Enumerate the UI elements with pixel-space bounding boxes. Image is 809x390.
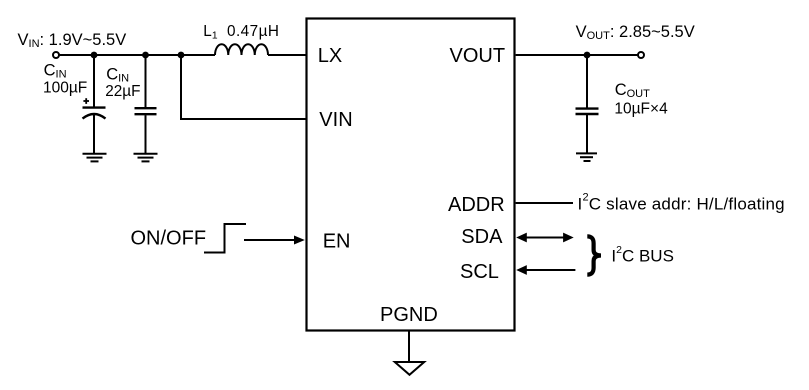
capacitor CIN1 100uF (polarized) (83, 108, 106, 119)
svg-text:ADDR: ADDR (448, 194, 505, 216)
svg-text:0.47µH: 0.47µH (227, 23, 279, 40)
svg-text:ON/OFF: ON/OFF (131, 228, 207, 250)
wire CIN1 bottom lead (93, 114, 95, 153)
brace I2C bus (587, 236, 601, 274)
svg-text:SCL: SCL (460, 261, 499, 283)
ground PGND arrow (395, 362, 424, 375)
wire COUT top lead (586, 55, 588, 108)
svg-text:LX: LX (318, 45, 342, 67)
ground GND1 (83, 154, 107, 162)
inductor L1 (215, 44, 268, 55)
svg-text:SDA: SDA (461, 226, 503, 248)
capacitor C1 plus sign (83, 98, 89, 104)
arrowhead SDA right (563, 233, 574, 243)
svg-text:100µF: 100µF (43, 80, 87, 97)
svg-text:EN: EN (323, 231, 351, 253)
svg-text:VOUT: VOUT (450, 45, 506, 67)
svg-text:I2C slave addr: H/L/floating: I2C slave addr: H/L/floating (578, 191, 785, 213)
node VOUT output terminal (638, 52, 644, 58)
IC U1 body (307, 19, 515, 331)
wire SCL arrow (526, 269, 575, 271)
wire SDA double arrow (526, 237, 564, 239)
wire COUT bottom lead (586, 115, 588, 153)
wire ADDR stub (516, 202, 573, 204)
svg-text:PGND: PGND (380, 304, 438, 326)
capacitor COUT 10uFx4 (576, 109, 599, 114)
wire CIN2 top lead (145, 55, 147, 107)
waveform enable step (204, 224, 246, 253)
junction J1 (CIN1 tap) (91, 52, 98, 59)
wire CIN1 top lead (93, 55, 95, 107)
wire VOUT rail (516, 54, 638, 56)
ground GND2 (134, 154, 158, 162)
svg-text:VIN: VIN (319, 109, 352, 131)
wire input rail (59, 54, 215, 56)
junction J4 (COUT tap) (584, 52, 591, 59)
arrowhead EN (294, 236, 305, 245)
arrowhead SCL left (516, 265, 527, 275)
ground GND3 (576, 153, 597, 161)
svg-text:10µF×4: 10µF×4 (614, 100, 668, 117)
node VIN input terminal (53, 52, 59, 58)
wire EN arrow (244, 239, 296, 241)
wire VIN branch (181, 55, 306, 119)
svg-text:22µF: 22µF (105, 83, 140, 100)
wire L1 to LX pin (268, 54, 306, 56)
wire PGND lead (408, 332, 410, 363)
arrowhead SDA left (516, 233, 527, 243)
wire CIN2 bottom lead (145, 115, 147, 153)
junction J3 (VIN branch) (178, 52, 185, 59)
capacitor CIN2 22uF (135, 108, 157, 114)
junction J2 (CIN2 tap) (142, 52, 149, 59)
